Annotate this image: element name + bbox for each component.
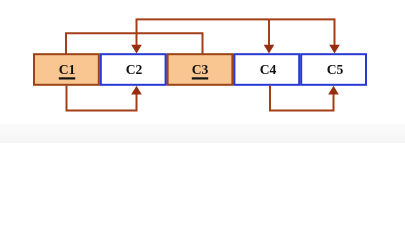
box C4 (234, 54, 299, 85)
grey footer strip (0, 124, 405, 143)
upper top bracket: riser above C2 across to C4 and C5 (137, 19, 335, 45)
arrowhead into C2 top (131, 45, 142, 54)
svg-text:C5: C5 (327, 62, 344, 77)
arrowhead into C5 top (329, 45, 340, 54)
svg-text:C2: C2 (126, 62, 143, 77)
box C1 (34, 54, 99, 85)
box C3 (168, 54, 233, 85)
bottom U connector C1 to C2 (67, 86, 137, 111)
box C2 (101, 54, 166, 85)
arrowhead into C2 bottom (131, 86, 142, 95)
arrowhead into C4 top (264, 45, 275, 54)
arrowhead into C5 bottom (328, 86, 339, 95)
svg-text:C1: C1 (59, 62, 76, 77)
svg-text:C4: C4 (260, 62, 277, 77)
svg-text:C3: C3 (192, 62, 209, 77)
lower top bracket: from C1 and C3 into C2 (66, 33, 203, 53)
box C5 (301, 54, 366, 85)
bottom U connector C4 to C5 (270, 86, 334, 111)
